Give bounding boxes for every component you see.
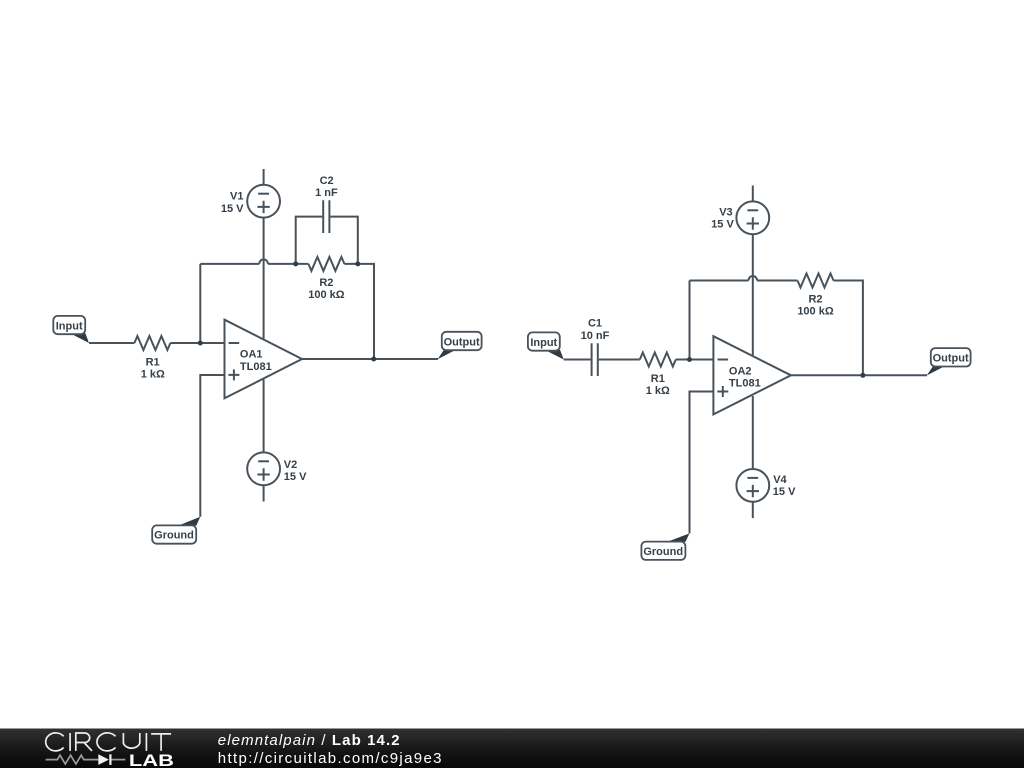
wire: non-inverting input to ground (right) bbox=[690, 392, 714, 534]
svg-text:R2: R2 bbox=[319, 277, 333, 289]
logo resistor-diode symbol bbox=[46, 754, 126, 765]
wire: feedback left vertical bbox=[199, 264, 201, 343]
wire: op-amp bottom to V2 bbox=[263, 379, 265, 452]
flag Input (left) bbox=[53, 316, 89, 343]
resistor R1 (left) bbox=[134, 336, 170, 350]
svg-text:1 kΩ: 1 kΩ bbox=[646, 385, 670, 397]
flag Ground (right) bbox=[641, 533, 689, 559]
svg-text:10 nF: 10 nF bbox=[581, 330, 610, 342]
voltage source V4 bbox=[736, 469, 769, 502]
flag Ground (left) bbox=[152, 517, 200, 544]
svg-text:V2: V2 bbox=[284, 459, 297, 471]
wire: V1 to op-amp top bbox=[263, 218, 265, 339]
node: output junction dot (right) bbox=[860, 373, 865, 378]
node: feedback right junction dot bbox=[355, 261, 360, 266]
resistor R2 (right) bbox=[798, 274, 834, 288]
wire: V2 bottom stub bbox=[263, 485, 265, 501]
voltage source V3 bbox=[736, 201, 769, 234]
node: feedback left junction dot bbox=[293, 261, 298, 266]
svg-text:LAB: LAB bbox=[129, 751, 174, 768]
node: output junction dot bbox=[371, 357, 376, 362]
voltage source V2 bbox=[247, 452, 280, 485]
wire: V4 bottom stub bbox=[752, 502, 754, 518]
wire: input to C1 bbox=[564, 359, 591, 361]
wire: feedback right + down to output bbox=[344, 264, 374, 359]
svg-text:TL081: TL081 bbox=[240, 361, 272, 373]
wire: R1 to op-amp inverting input bbox=[170, 342, 224, 344]
svg-text:R1: R1 bbox=[146, 356, 160, 368]
svg-text:R2: R2 bbox=[808, 294, 822, 306]
svg-text:OA2: OA2 bbox=[729, 365, 752, 377]
svg-text:100 kΩ: 100 kΩ bbox=[308, 289, 345, 301]
wire: op-amp bottom to V4 bbox=[752, 396, 754, 469]
svg-text:V1: V1 bbox=[230, 191, 243, 203]
logo CIRCUIT letters bbox=[46, 733, 171, 751]
capacitor C1 bbox=[592, 343, 598, 376]
svg-text:Ground: Ground bbox=[643, 546, 683, 558]
wire: input to R1 bbox=[89, 342, 134, 344]
svg-text:15 V: 15 V bbox=[221, 203, 244, 215]
wire: V1 top stub bbox=[263, 169, 265, 185]
node: inverting input junction dot (right) bbox=[687, 357, 692, 362]
wire: V3 to op-amp top bbox=[752, 234, 754, 355]
wire: feedback top horizontal with hop (right circuit) bbox=[690, 276, 798, 280]
svg-text:Output: Output bbox=[933, 353, 969, 365]
svg-text:OA1: OA1 bbox=[240, 349, 263, 361]
wire: non-inverting input to ground bbox=[200, 375, 224, 517]
resistor R2 bbox=[308, 257, 344, 271]
svg-text:15 V: 15 V bbox=[773, 486, 796, 498]
svg-text:TL081: TL081 bbox=[729, 377, 761, 389]
wire: op-amp output (right) bbox=[791, 374, 927, 376]
svg-text:elemntalpain / Lab 14.2: elemntalpain / Lab 14.2 bbox=[218, 732, 401, 749]
wire: feedback left vertical (right circuit) bbox=[689, 281, 691, 360]
flag Output (left) bbox=[438, 332, 482, 360]
wire: feedback right + down to output (right circuit) bbox=[834, 281, 863, 376]
svg-text:15 V: 15 V bbox=[711, 219, 734, 231]
wire: C2 left riser bbox=[296, 217, 323, 264]
capacitor C2 bbox=[323, 200, 329, 233]
svg-text:C2: C2 bbox=[320, 175, 334, 187]
voltage source V1 bbox=[247, 185, 280, 218]
svg-text:Ground: Ground bbox=[154, 530, 194, 542]
svg-text:Input: Input bbox=[530, 337, 557, 349]
op-amp OA1 bbox=[225, 320, 303, 399]
footer bar bbox=[0, 729, 1024, 768]
svg-text:R1: R1 bbox=[651, 373, 665, 385]
wire: R1 to op-amp inverting input (right) bbox=[676, 359, 714, 361]
wire: feedback top horizontal with hop bbox=[200, 259, 308, 264]
wire: op-amp output bbox=[302, 358, 438, 360]
op-amp OA2 bbox=[713, 336, 791, 414]
wire: C1 to R1 bbox=[599, 359, 640, 361]
wire: C2 right riser bbox=[330, 217, 358, 264]
node: inverting input junction dot bbox=[198, 341, 203, 346]
svg-text:http://circuitlab.com/c9ja9e3: http://circuitlab.com/c9ja9e3 bbox=[218, 750, 443, 767]
flag Output (right) bbox=[927, 348, 971, 375]
svg-text:Input: Input bbox=[56, 320, 83, 332]
svg-text:V4: V4 bbox=[773, 474, 787, 486]
wire: V3 top stub bbox=[752, 186, 754, 202]
svg-text:Output: Output bbox=[444, 336, 480, 348]
svg-text:C1: C1 bbox=[588, 318, 602, 330]
svg-text:V3: V3 bbox=[719, 207, 732, 219]
svg-text:15 V: 15 V bbox=[284, 471, 307, 483]
resistor R1 (right) bbox=[640, 353, 676, 367]
svg-text:1 kΩ: 1 kΩ bbox=[141, 369, 165, 381]
svg-text:1 nF: 1 nF bbox=[315, 187, 338, 199]
flag Input (right) bbox=[528, 332, 564, 359]
svg-text:100 kΩ: 100 kΩ bbox=[797, 306, 834, 318]
